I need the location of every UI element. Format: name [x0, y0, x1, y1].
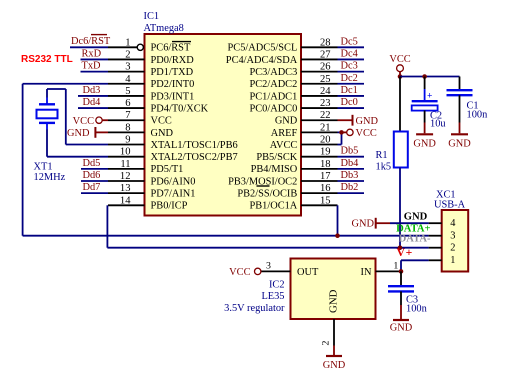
svg-text:USB-A: USB-A	[434, 199, 466, 210]
svg-text:PD2/INT0: PD2/INT0	[151, 79, 195, 90]
IC1 pin 12 stub	[108, 180, 145, 182]
IC1 pin 5 stub	[108, 95, 145, 97]
svg-text:PB4/MISO: PB4/MISO	[251, 164, 298, 175]
IC IC1 ATmega8 body	[145, 34, 302, 216]
net Dd5 wire	[81, 168, 108, 170]
IC1 pin 27 stub	[301, 58, 338, 60]
net Dd6 wire	[81, 180, 108, 182]
svg-text:GND: GND	[356, 116, 379, 127]
svg-text:PC0/ADC0: PC0/ADC0	[249, 103, 297, 114]
svg-text:XTAL1/TOSC1/PB6: XTAL1/TOSC1/PB6	[151, 140, 238, 151]
svg-text:6: 6	[125, 98, 130, 109]
GND supply below C3	[393, 319, 409, 321]
svg-text:18: 18	[320, 159, 331, 170]
junction AREF/AVCC	[339, 130, 344, 135]
wire PB1/OC1A to DATA+	[337, 205, 339, 235]
svg-text:GND: GND	[275, 116, 298, 127]
XC1 pin 1 stub	[429, 259, 442, 261]
svg-text:13: 13	[120, 183, 131, 194]
net Dc6/RST wire	[70, 46, 108, 48]
IC1 pin 20 stub	[301, 144, 338, 146]
svg-text:3.5V regulator: 3.5V regulator	[224, 303, 285, 314]
regulator IC2 body	[291, 259, 376, 320]
IC1 pin 9 stub	[108, 144, 145, 146]
svg-text:Dd7: Dd7	[83, 182, 101, 193]
wire C1 to GND	[459, 95, 461, 122]
crystal XT1 top plate	[39, 103, 55, 105]
wire IC2 pin2 to GND	[333, 346, 335, 356]
svg-text:23: 23	[320, 98, 331, 109]
svg-text:GND: GND	[448, 139, 471, 150]
IC1 pin 14 stub	[108, 204, 145, 206]
svg-text:PB5/SCK: PB5/SCK	[256, 152, 297, 163]
wire V+ from XC1 pin1	[401, 259, 429, 261]
wire XTAL2 pin10 net	[46, 123, 48, 130]
svg-text:VCC: VCC	[151, 116, 172, 127]
XC1 pin 4 stub	[429, 222, 442, 224]
IC1 pin 25 stub	[301, 83, 338, 85]
net Dc0 wire	[338, 107, 365, 109]
IC1 pin 3 stub	[108, 71, 145, 73]
net Dc4 wire	[338, 58, 365, 60]
svg-text:R1: R1	[376, 150, 388, 161]
svg-text:2: 2	[450, 242, 455, 253]
svg-text:OUT: OUT	[297, 267, 319, 278]
net Dc1 wire	[338, 95, 365, 97]
svg-text:GND: GND	[352, 219, 375, 230]
svg-text:DATA-: DATA-	[399, 234, 431, 245]
svg-text:Db5: Db5	[341, 146, 359, 157]
IC1 pin 23 stub	[301, 107, 338, 109]
svg-text:PC4/ADC4/SDA: PC4/ADC4/SDA	[226, 55, 298, 66]
svg-text:VCC: VCC	[73, 116, 94, 127]
svg-text:PD3/INT1: PD3/INT1	[151, 91, 195, 102]
svg-text:IC2: IC2	[269, 279, 285, 290]
svg-text:Dc3: Dc3	[341, 61, 358, 72]
GND supply below C1	[451, 133, 468, 135]
junction VCC/R1	[398, 74, 403, 79]
svg-text:21: 21	[320, 122, 331, 133]
svg-text:GND: GND	[328, 289, 340, 313]
svg-text:Dc0: Dc0	[341, 97, 358, 108]
svg-text:7: 7	[125, 110, 130, 121]
IC1 pin 11 stub	[108, 168, 145, 170]
crystal XT1 bottom plate	[39, 122, 55, 124]
svg-text:Dd4: Dd4	[83, 97, 102, 108]
svg-text:PC5/ADC5/SCL: PC5/ADC5/SCL	[228, 43, 298, 54]
svg-text:20: 20	[320, 135, 331, 146]
svg-text:2: 2	[321, 341, 332, 346]
IC1 pin 6 stub	[108, 107, 145, 109]
svg-text:14: 14	[120, 195, 131, 206]
net Dd7 wire	[81, 192, 108, 194]
svg-text:PD5/T1: PD5/T1	[151, 164, 184, 175]
junction C2 branch	[422, 74, 427, 79]
svg-text:V+: V+	[397, 246, 413, 259]
svg-text:PD0/RXD: PD0/RXD	[151, 55, 195, 66]
IC1 pin 15 stub	[301, 204, 338, 206]
svg-text:Dc5: Dc5	[341, 36, 358, 47]
svg-text:Dc2: Dc2	[341, 73, 358, 84]
svg-text:IC1: IC1	[144, 11, 160, 22]
svg-text:3: 3	[266, 260, 271, 271]
XC1 pin 2 stub	[429, 247, 442, 249]
IC1 pin 17 stub	[301, 180, 338, 182]
svg-text:PD1/TXD: PD1/TXD	[151, 67, 194, 78]
IC1 pin 13 stub	[108, 192, 145, 194]
svg-text:PB1/OC1A: PB1/OC1A	[249, 201, 297, 212]
svg-text:16: 16	[320, 183, 331, 194]
svg-text:3: 3	[450, 230, 455, 241]
IC1 pin 24 stub	[301, 95, 338, 97]
svg-text:25: 25	[320, 74, 331, 85]
svg-text:9: 9	[125, 135, 130, 146]
IC1 pin 18 stub	[301, 168, 338, 170]
svg-text:Db4: Db4	[341, 158, 360, 169]
resistor R1 body	[394, 132, 408, 168]
XC1 pin 3 stub	[429, 235, 442, 237]
svg-text:GND: GND	[390, 322, 413, 333]
IC1 pin 7 stub	[108, 119, 145, 121]
overline RST on net label	[91, 34, 107, 36]
svg-text:XT1: XT1	[34, 162, 53, 173]
wire C2 to GND	[424, 111, 426, 123]
svg-text:PC1/ADC1: PC1/ADC1	[249, 91, 297, 102]
svg-text:24: 24	[320, 86, 331, 97]
svg-text:PB0/ICP: PB0/ICP	[151, 201, 188, 212]
svg-text:Dc6/RST: Dc6/RST	[71, 36, 111, 47]
VCC supply at pins 21/20 (AREF/AVCC)	[338, 131, 342, 133]
svg-text:PC2/ADC2: PC2/ADC2	[249, 79, 297, 90]
IC2 pin 3 stub	[261, 270, 291, 272]
svg-text:VCC: VCC	[356, 128, 377, 139]
svg-text:4: 4	[125, 74, 131, 85]
svg-text:IN: IN	[361, 267, 372, 278]
svg-text:10u: 10u	[430, 119, 446, 130]
svg-text:12: 12	[120, 171, 131, 182]
wire VCC to R1	[399, 77, 401, 132]
svg-text:GND: GND	[323, 360, 346, 371]
capacitor C3 bottom plate	[388, 290, 414, 292]
IC2 pin 2 stub	[333, 319, 335, 346]
IC1 pin 19 stub	[301, 156, 338, 158]
svg-text:AREF: AREF	[271, 128, 298, 139]
net TxD wire	[81, 71, 109, 73]
svg-text:Dd6: Dd6	[83, 170, 101, 181]
wire C3 to GND	[400, 291, 402, 305]
svg-text:AVCC: AVCC	[270, 140, 298, 151]
svg-text:1: 1	[450, 255, 455, 266]
IC1 pin 16 stub	[301, 192, 338, 194]
svg-text:TxD: TxD	[82, 61, 102, 72]
svg-text:15: 15	[320, 195, 331, 206]
net Db3 wire	[338, 180, 365, 182]
svg-text:GND: GND	[67, 128, 90, 139]
IC1 pin 21 stub	[301, 131, 338, 133]
capacitor C1 top plate	[447, 89, 473, 91]
net Dc5 wire	[338, 46, 365, 48]
svg-text:19: 19	[320, 147, 331, 158]
overline SS on pin16 name	[257, 185, 270, 187]
wire C2 top	[424, 77, 426, 90]
svg-text:4: 4	[450, 218, 456, 229]
IC1 pin 8 stub	[108, 131, 145, 133]
svg-text:Dd3: Dd3	[83, 85, 101, 96]
GND supply at pin 22	[338, 119, 353, 121]
svg-text:+: +	[427, 91, 432, 101]
svg-text:22: 22	[320, 110, 331, 121]
svg-text:PD7/AIN1: PD7/AIN1	[151, 189, 196, 200]
svg-text:PD4/T0/XCK: PD4/T0/XCK	[151, 103, 209, 114]
svg-text:28: 28	[320, 37, 331, 48]
svg-text:VCC: VCC	[389, 54, 410, 65]
svg-text:100n: 100n	[406, 304, 428, 315]
wire PB0/ICP to USB DATA-	[106, 205, 108, 247]
net Dc3 wire	[338, 71, 365, 73]
crystal XT1 body	[37, 110, 58, 119]
svg-text:10: 10	[120, 147, 131, 158]
svg-text:RxD: RxD	[82, 48, 102, 59]
svg-text:2: 2	[125, 49, 130, 60]
svg-text:PC3/ADC3: PC3/ADC3	[249, 67, 297, 78]
svg-text:12MHz: 12MHz	[34, 172, 66, 183]
net RxD wire	[81, 58, 109, 60]
svg-text:Dc1: Dc1	[341, 85, 358, 96]
IC1 pin 2 stub	[108, 58, 145, 60]
IC1 pin 4 stub	[108, 83, 145, 85]
IC2 pin 1 stub	[376, 270, 402, 272]
svg-text:XTAL2/TOSC2/PB7: XTAL2/TOSC2/PB7	[151, 152, 238, 163]
svg-text:100n: 100n	[467, 110, 489, 121]
svg-text:Db2: Db2	[341, 182, 359, 193]
net Dc2 wire	[338, 83, 365, 85]
svg-text:1: 1	[393, 260, 398, 271]
net Dd4 wire	[78, 107, 108, 109]
svg-text:GND: GND	[413, 139, 436, 150]
wire C3 top	[400, 271, 402, 285]
svg-text:1k5: 1k5	[376, 162, 392, 173]
GND supply below IC2	[326, 355, 342, 357]
IC1 pin 1 stub	[108, 46, 137, 48]
junction R1/DATA-	[398, 245, 403, 250]
IC1 pin 22 stub	[301, 119, 338, 121]
svg-text:PB2/SS/OCIB: PB2/SS/OCIB	[237, 189, 297, 200]
capacitor C3 top plate	[388, 285, 414, 287]
svg-text:Dd5: Dd5	[83, 158, 101, 169]
svg-text:26: 26	[320, 62, 331, 73]
svg-text:3: 3	[125, 62, 130, 73]
svg-text:RS232 TTL: RS232 TTL	[21, 54, 73, 65]
net Db4 wire	[338, 168, 365, 170]
wire GND net to XC1	[390, 222, 429, 224]
svg-text:5: 5	[125, 86, 130, 97]
svg-text:11: 11	[120, 159, 130, 170]
IC1 pin 26 stub	[301, 71, 338, 73]
svg-text:Db3: Db3	[341, 170, 359, 181]
capacitor C1 bottom plate	[447, 94, 473, 96]
svg-text:17: 17	[320, 171, 331, 182]
wire VCC rail to C1/C2	[400, 76, 460, 78]
svg-text:ATmega8: ATmega8	[144, 23, 184, 34]
overline RST on pin1 name	[172, 41, 191, 43]
svg-text:Dc4: Dc4	[341, 48, 359, 59]
svg-text:VCC: VCC	[229, 267, 250, 278]
wire R1 to DATA-	[399, 168, 401, 248]
svg-text:GND: GND	[404, 212, 428, 223]
IC1 pin 10 stub	[108, 156, 145, 158]
net Db5 wire	[338, 156, 365, 158]
junction pin15/DATA+	[335, 233, 340, 238]
svg-text:GND: GND	[151, 128, 174, 139]
capacitor C2 top plate	[412, 100, 438, 102]
wire XTAL1 pin9 net	[66, 144, 108, 146]
net Dd3 wire	[78, 95, 108, 97]
svg-text:PD6/AIN0: PD6/AIN0	[151, 176, 196, 187]
net Db2 wire	[338, 192, 365, 194]
svg-text:8: 8	[125, 122, 130, 133]
IC1 pin 28 stub	[301, 46, 338, 48]
svg-text:LE35: LE35	[261, 291, 284, 302]
GND supply below C2	[416, 133, 433, 135]
IC1 pin 1 inversion bubble	[137, 44, 143, 50]
connector XC1 body	[442, 210, 469, 272]
junction V+/IN/C3	[399, 269, 404, 274]
svg-text:27: 27	[320, 49, 331, 60]
svg-text:PC6/RST: PC6/RST	[151, 43, 191, 54]
svg-text:1: 1	[125, 37, 130, 48]
wire PD2/INT0 to USB DATA+ (left rail)	[23, 83, 108, 85]
capacitor C2 bottom plate	[412, 105, 438, 110]
